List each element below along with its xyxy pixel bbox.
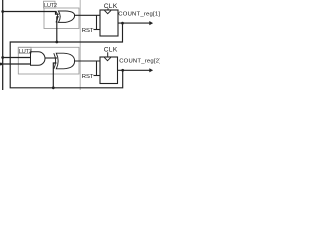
svg-text:COUNT_reg[1]: COUNT_reg[1] <box>118 11 160 17</box>
svg-text:CLK: CLK <box>104 47 118 54</box>
svg-text:COUNT_reg[2]: COUNT_reg[2] <box>119 59 160 65</box>
svg-text:RST: RST <box>82 74 94 80</box>
svg-text:LUT2: LUT2 <box>44 3 57 9</box>
svg-text:CLK: CLK <box>104 3 118 10</box>
svg-text:RST: RST <box>82 28 94 34</box>
svg-text:LUT3: LUT3 <box>19 49 32 55</box>
